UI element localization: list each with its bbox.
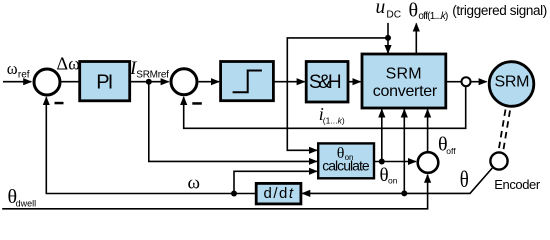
svg-text:θ: θ (460, 166, 469, 192)
svg-text:d/dt: d/dt (264, 185, 294, 202)
svg-text:ω: ω (7, 59, 18, 78)
node dot omega branch (231, 191, 237, 197)
node dot theta_on branch (379, 159, 385, 165)
svg-text:PI: PI (96, 71, 113, 93)
svg-text:(triggered signal): (triggered signal) (452, 3, 547, 18)
label u_DC (376, 0, 402, 21)
wire theta_dwell to J3 (2, 175, 427, 209)
wire sensor node to SRM motor (471, 81, 487, 83)
svg-text:off(1...k): off(1...k) (418, 11, 448, 22)
block SRM converter (362, 54, 446, 108)
label minus J1 (55, 102, 64, 105)
wire PI to J2 (130, 81, 169, 83)
wire theta_on output to summing junction J3 (374, 161, 416, 163)
svg-text:SRM: SRM (495, 74, 530, 91)
wire theta from encoder to d/dt (302, 168, 492, 193)
wire theta up into converter (403, 110, 405, 194)
svg-text:SRMref: SRMref (136, 70, 169, 81)
svg-text:dwell: dwell (16, 199, 37, 209)
label theta_off (438, 134, 456, 156)
shaft dashed link SRM to encoder (499, 110, 511, 153)
svg-text:ref: ref (18, 69, 30, 80)
wire u_DC branch to theta_on calculate (287, 38, 388, 150)
node dot u_DC branch (385, 35, 391, 41)
wire omega branch to theta_on calculate (234, 171, 317, 193)
summing junction J1 (34, 69, 60, 95)
wire hysteresis to S&H (273, 81, 304, 83)
label theta_on (380, 165, 398, 186)
svg-text:calculate: calculate (322, 158, 370, 174)
wire omega_ref input (3, 81, 31, 83)
svg-text:Encoder: Encoder (494, 177, 541, 192)
svg-text:off: off (446, 146, 456, 156)
wire S&H to SRM converter (348, 81, 360, 83)
encoder circle (490, 152, 507, 169)
svg-text:DC: DC (386, 10, 401, 21)
wire I_SRMref feed to theta_on calculate (149, 82, 317, 162)
wire i(1...k) feedback from sensor to J2 (184, 86, 466, 128)
label theta_off(1...k) (409, 0, 449, 22)
label theta_dwell (8, 186, 37, 209)
wire J2 to hysteresis (199, 81, 219, 83)
svg-text:converter: converter (373, 83, 438, 100)
wire theta_off J3 up into converter (427, 110, 429, 152)
svg-text:u: u (376, 0, 386, 18)
block S&H (306, 62, 348, 103)
sensor node circle (462, 77, 471, 86)
svg-text:S&H: S&H (309, 72, 342, 93)
label minus J2 (192, 102, 202, 105)
wire converter to sensor node (446, 81, 461, 83)
wire theta_off(1..k) out of converter top (415, 24, 417, 55)
block PI (80, 62, 130, 101)
block theta_on calculate (318, 143, 374, 178)
node dot I_SRMref (146, 79, 152, 85)
label i_(1...k) (319, 104, 345, 126)
node dot theta branch (401, 190, 407, 196)
svg-text:ω: ω (188, 173, 201, 194)
wire theta_on up into converter (381, 110, 383, 162)
summing junction J3 theta_off (418, 152, 439, 173)
svg-text:on: on (388, 176, 398, 186)
svg-text:(1...k): (1...k) (323, 116, 345, 126)
block hysteresis controller (221, 62, 274, 101)
SRM motor circle (489, 62, 534, 107)
svg-text:θ: θ (409, 0, 419, 21)
wire omega from d/dt to J1 (46, 97, 256, 193)
wire J1 to PI (62, 81, 81, 83)
svg-text:Δω: Δω (57, 54, 81, 74)
label omega_ref (7, 59, 30, 81)
summing junction J2 (171, 69, 197, 95)
label I_SRMref (129, 58, 169, 81)
svg-text:SRM: SRM (386, 66, 422, 83)
wire u_DC down into converter (387, 23, 389, 53)
block d/dt (256, 183, 301, 204)
